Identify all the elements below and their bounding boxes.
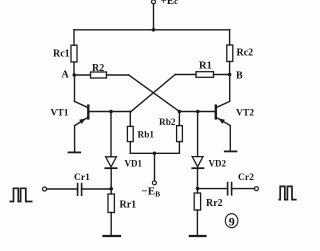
svg-text:VD1: VD1 (125, 159, 143, 169)
svg-text:Cr2: Cr2 (238, 173, 254, 183)
svg-text:Rc2: Rc2 (237, 48, 254, 59)
figure number 9 (225, 214, 238, 229)
resistor R1 (196, 72, 214, 78)
svg-text:VT1: VT1 (51, 109, 69, 119)
resistor Rr1 (108, 194, 114, 213)
wire node A to R2 (74, 74, 90, 76)
svg-text:VD2: VD2 (209, 159, 227, 169)
wire top rail (74, 29, 230, 31)
svg-text:VT2: VT2 (236, 109, 254, 119)
wire Rc2 to node B (229, 62, 231, 75)
junction VT1 base / VD1 (109, 110, 113, 114)
wire VT1 base (88, 111, 131, 113)
wire cross-coupling R2 to VT2 base (129, 75, 180, 112)
wire Rb1 bottom (129, 142, 131, 154)
resistor Rr2 (194, 193, 200, 210)
svg-text:Rr2: Rr2 (206, 198, 223, 209)
wire VT1 emitter to ground (74, 126, 76, 153)
svg-text:B: B (236, 71, 243, 82)
wire node B to R1 (214, 74, 230, 76)
output terminal right (254, 187, 258, 191)
wire cross-coupling R1 to VT1 base (131, 75, 175, 112)
wire Rr2 to ground (196, 210, 198, 236)
svg-text:Rc1: Rc1 (53, 49, 70, 60)
junction -EB link (153, 152, 157, 156)
diode VD1 (105, 157, 116, 168)
svg-text:Rb2: Rb2 (159, 118, 176, 128)
wire Rb1 to Rb2 bottom link (130, 152, 179, 154)
ground Rr1 (104, 235, 121, 237)
wire +Ec to top rail (153, 4, 155, 30)
wire Rb1 top (129, 112, 131, 127)
wire junction to Cr2 (198, 188, 228, 190)
output pulse symbol right (279, 186, 297, 199)
svg-text:Rb1: Rb1 (138, 131, 155, 141)
svg-text:9: 9 (229, 215, 235, 229)
resistor Rb2 (177, 126, 183, 142)
diode VD2 (192, 157, 203, 169)
ground VT1 emitter (69, 151, 81, 153)
wire Cr1 to junction (82, 188, 112, 190)
svg-text:A: A (62, 70, 70, 81)
input pulse symbol left (10, 188, 33, 201)
wire Rb2 bottom (178, 142, 180, 154)
resistor Rb1 (127, 126, 133, 141)
capacitor Cr1 (78, 184, 82, 196)
terminal -EB (152, 181, 156, 185)
svg-text:R2: R2 (92, 63, 104, 74)
junction top rail (152, 28, 156, 32)
wire VT2 emitter to ground (229, 126, 231, 152)
wire Cr2 to output terminal (232, 188, 255, 190)
wire input to Cr1 (47, 188, 78, 190)
wire Rc1 to node A (73, 62, 75, 75)
input terminal left (43, 187, 47, 191)
resistor Rc2 (227, 45, 233, 62)
transistor VT1 (75, 101, 89, 125)
ground Rr2 (190, 235, 206, 237)
wire VT2 base (179, 111, 215, 113)
wire R1 to corner (175, 74, 196, 76)
capacitor Cr2 (228, 183, 232, 195)
wire VT2 collector to node B (229, 75, 231, 102)
svg-text:−EB: −EB (142, 186, 161, 199)
resistor Rc1 (71, 45, 77, 62)
wire rail to Rc2 (229, 30, 231, 45)
node A (73, 73, 77, 77)
ground VT2 emitter (225, 150, 237, 152)
transistor VT2 (216, 101, 231, 125)
wire VD1 anode (110, 112, 112, 157)
junction VT2 base / VD2 (196, 110, 200, 114)
wire Rb2 top (178, 112, 180, 126)
junction VT2 base / Rb2 (178, 110, 182, 114)
wire rail to Rc1 (73, 30, 75, 45)
wire Rr1 to ground (110, 213, 112, 237)
svg-text:Cr1: Cr1 (74, 173, 90, 183)
wire junction to -EB terminal (154, 153, 156, 181)
wire VD2 anode (197, 112, 199, 157)
svg-text:+Ec: +Ec (161, 0, 179, 7)
junction VD1 / Cr1 / Rr1 (109, 187, 113, 191)
wire R2 to corner (107, 74, 129, 76)
wire VT1 collector to node A (74, 75, 76, 101)
junction VD2 / Cr2 / Rr2 (196, 187, 200, 191)
wire VD2 cathode to junction (197, 168, 199, 193)
svg-text:R1: R1 (199, 61, 212, 72)
power terminal +Ec (152, 0, 156, 4)
node B (228, 73, 232, 77)
resistor R2 (91, 72, 107, 78)
svg-text:Rr1: Rr1 (120, 200, 137, 211)
wire VD1 cathode to junction (110, 168, 112, 194)
